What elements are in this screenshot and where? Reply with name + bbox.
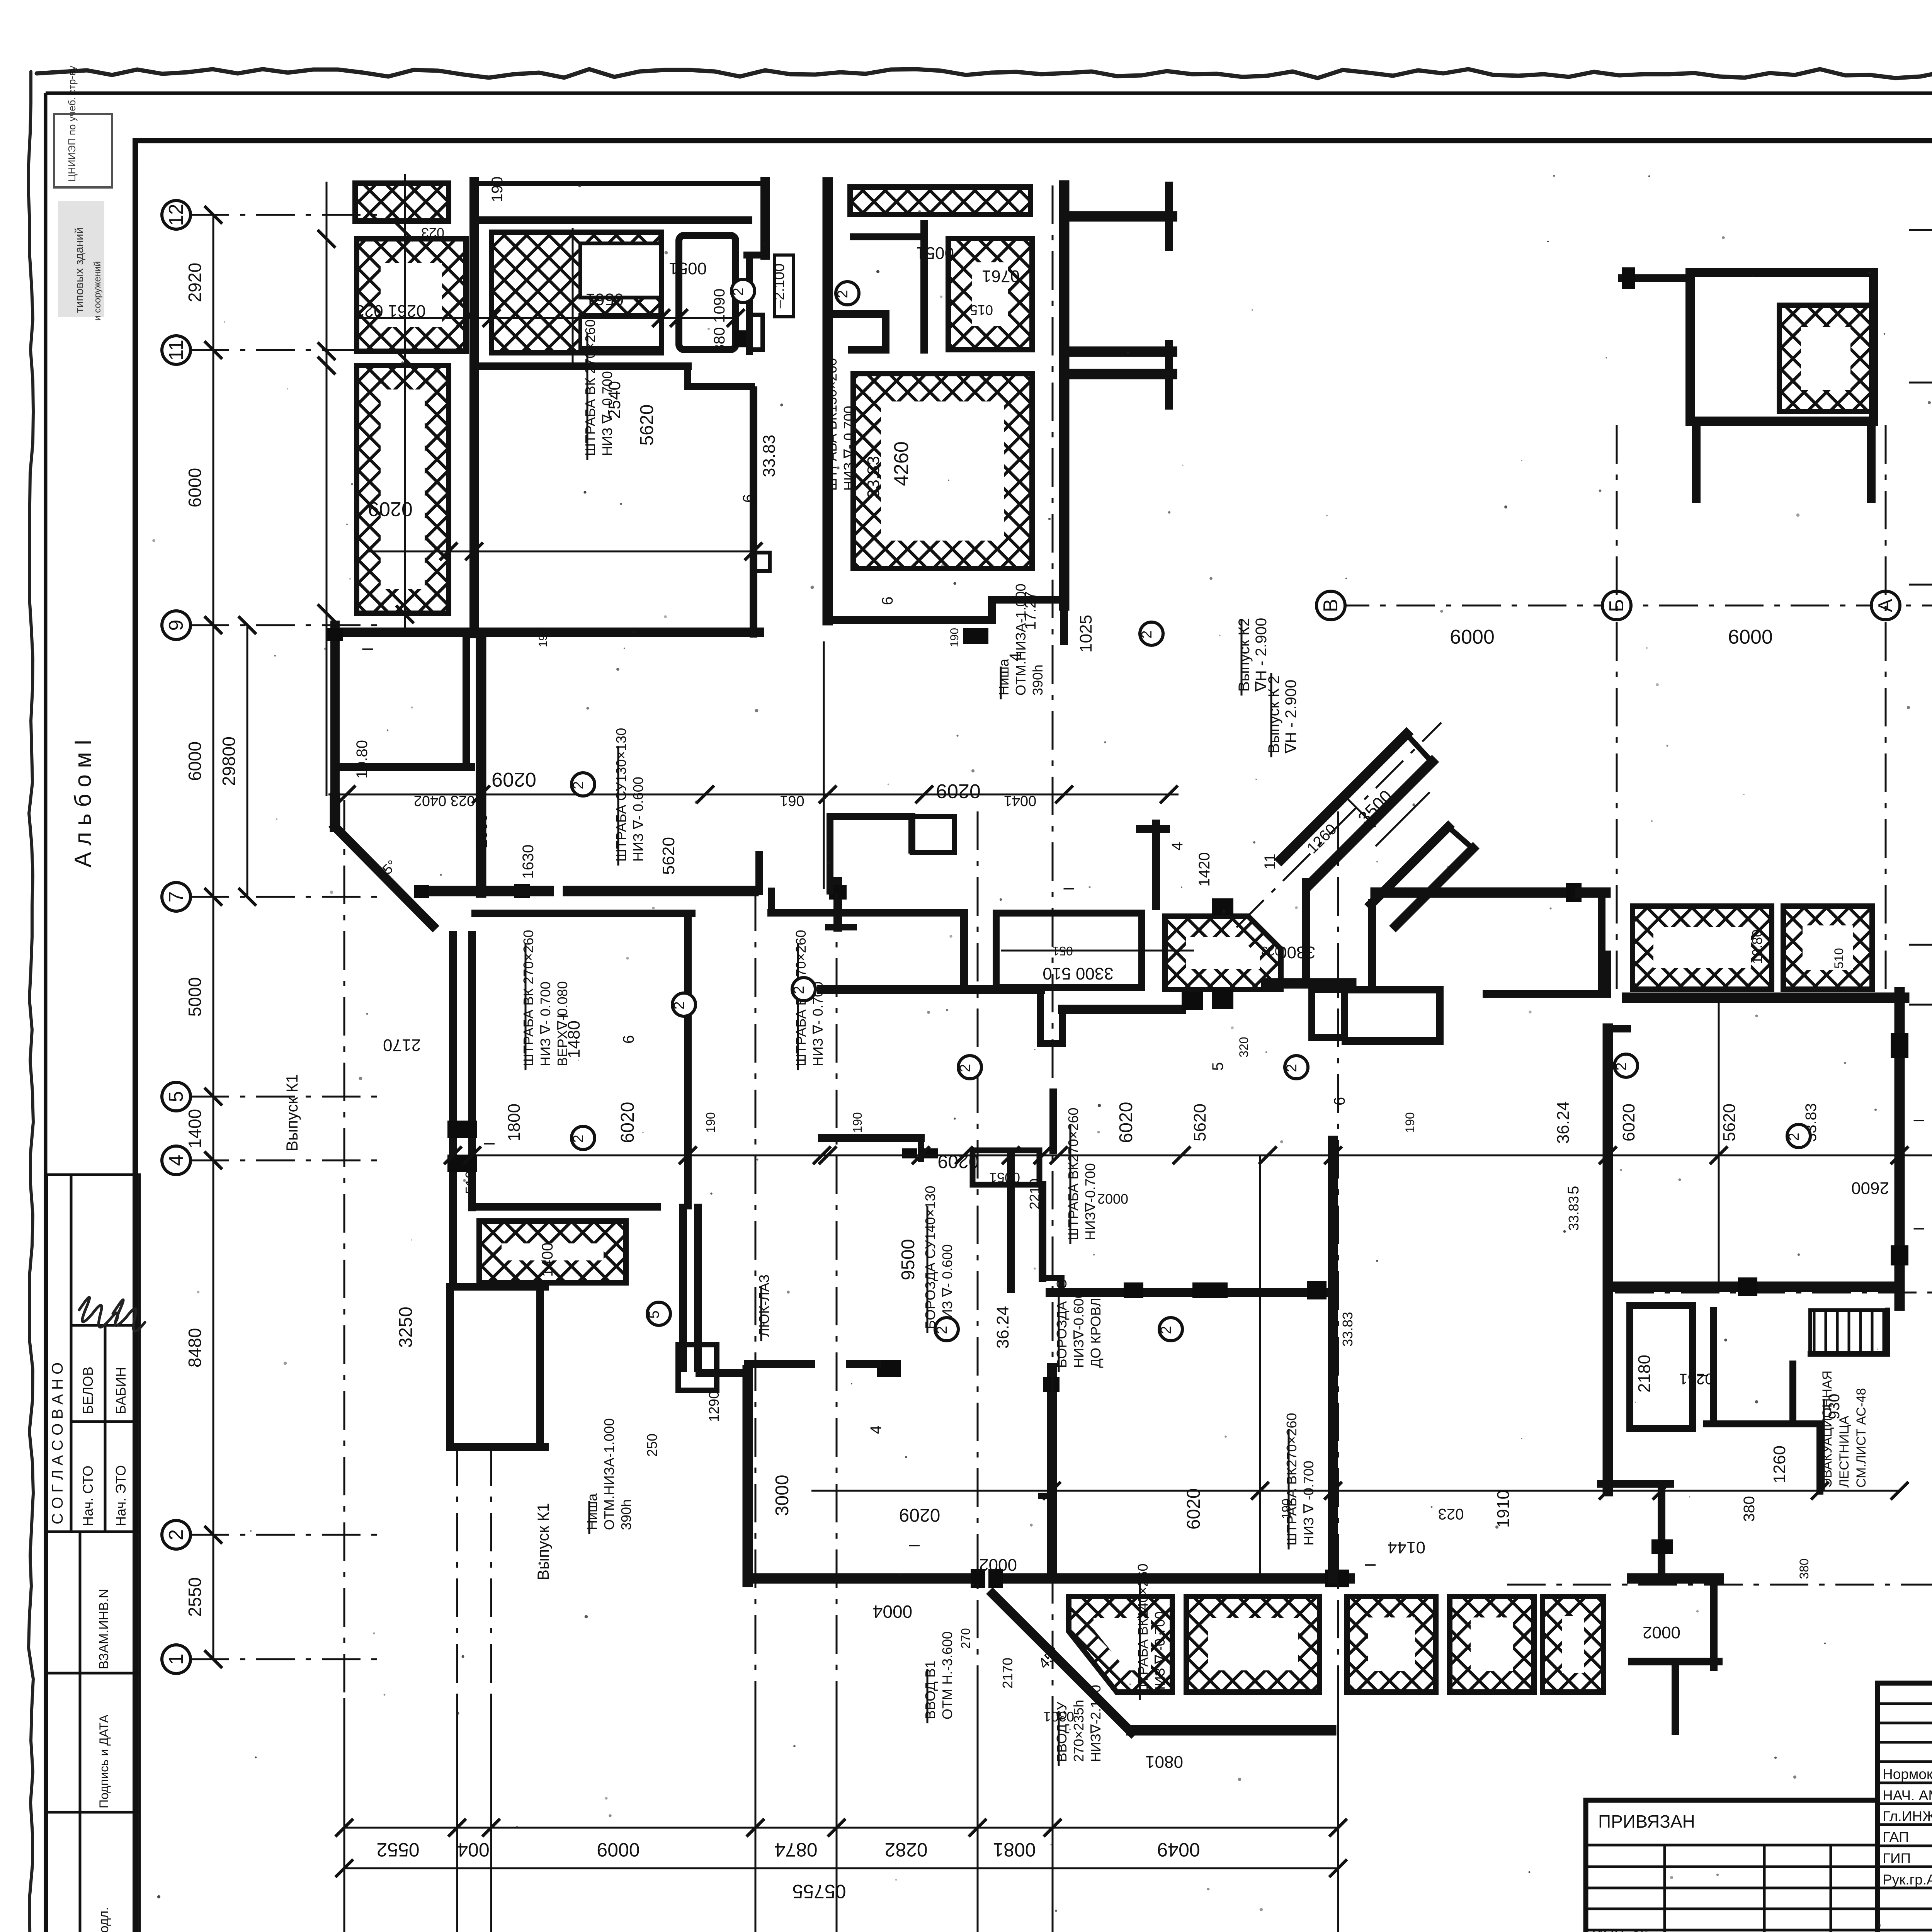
scan left wavy edge	[29, 71, 33, 1932]
svg-text:6: 6	[740, 494, 757, 503]
svg-text:2: 2	[1284, 1064, 1300, 1072]
svg-text:6020: 6020	[1619, 1104, 1638, 1141]
east wall of wing top	[760, 182, 770, 255]
svg-text:0209: 0209	[938, 1151, 979, 1172]
svg-text:ИНВ.N°подл.: ИНВ.N°подл.	[97, 1907, 111, 1932]
svg-text:5: 5	[646, 1310, 662, 1318]
svg-text:I: I	[906, 1543, 923, 1548]
wall stubs below block	[1692, 421, 1701, 498]
svg-text:023: 023	[1438, 1505, 1464, 1522]
svg-text:ВВОД СУ: ВВОД СУ	[1054, 1701, 1070, 1762]
svg-text:190: 190	[948, 628, 961, 647]
svg-text:Выпуск К2: Выпуск К2	[1236, 618, 1253, 692]
svg-text:390h: 390h	[1030, 665, 1046, 696]
stairs enclosure	[1810, 1351, 1888, 1357]
hatched box room 11-9/Л	[357, 366, 449, 613]
outer sheet border top	[46, 92, 1932, 95]
svg-text:ШТРАБА ВК270×260: ШТРАБА ВК270×260	[1065, 1107, 1081, 1240]
svg-text:6: 6	[1331, 1097, 1348, 1105]
notch on east wall	[753, 553, 770, 571]
hatched box right band 1	[1633, 906, 1772, 989]
svg-text:33.83: 33.83	[1566, 1196, 1582, 1231]
central cross wall y3345	[1050, 1288, 1327, 1297]
horizontal dimension chain y=2990	[444, 1146, 1932, 1164]
svg-text:2920: 2920	[185, 263, 205, 302]
wall	[1486, 990, 1607, 998]
axis circle 7 left	[162, 883, 190, 911]
svg-text:БЕЛОВ: БЕЛОВ	[80, 1367, 96, 1414]
step wall	[684, 366, 691, 386]
hatched box 1700 chamfered	[1165, 916, 1281, 990]
interior vertical continuation	[476, 638, 486, 893]
room 3300	[996, 913, 1142, 987]
svg-text:6: 6	[879, 597, 896, 605]
right axis dimension chain	[1507, 221, 1932, 1594]
svg-text:типовых зданий: типовых зданий	[73, 227, 86, 313]
wall below chain left	[822, 1134, 921, 1142]
small room at junction	[1312, 990, 1345, 1037]
svg-text:36.24: 36.24	[1554, 1101, 1573, 1144]
svg-text:I: I	[1694, 1373, 1711, 1378]
wall pieces near axis 5-4	[748, 1360, 811, 1368]
agreement table (СОГЛАСОВАНО)	[47, 1175, 145, 1532]
wall top of wing thin	[474, 181, 765, 186]
svg-text:и сооружений: и сооружений	[92, 261, 103, 321]
notch walls	[828, 310, 886, 318]
door marker	[447, 1155, 477, 1172]
svg-text:36.24: 36.24	[993, 1306, 1012, 1349]
svg-text:6020: 6020	[1116, 1102, 1136, 1143]
long wall y2561	[822, 985, 1041, 994]
svg-text:I: I	[1911, 1226, 1928, 1231]
svg-text:0561: 0561	[586, 290, 624, 309]
svg-text:Нормоконт.: Нормоконт.	[1883, 1766, 1932, 1782]
svg-text:СМ.ЛИСТ АС-48: СМ.ЛИСТ АС-48	[1854, 1388, 1869, 1488]
svg-text:НИЗ ∇- 0.700: НИЗ ∇- 0.700	[841, 406, 857, 491]
wall 2600	[1615, 1282, 1900, 1292]
svg-text:0049: 0049	[1157, 1839, 1200, 1861]
svg-text:6020: 6020	[617, 1102, 638, 1143]
svg-text:0004: 0004	[873, 1602, 912, 1622]
svg-text:ВЕРХ∇-0.080: ВЕРХ∇-0.080	[554, 981, 570, 1066]
svg-text:1800: 1800	[505, 1104, 524, 1141]
central partition 2	[1007, 1155, 1015, 1289]
room wall vertical	[684, 913, 692, 1206]
svg-text:НИЗ ∇- 0.700: НИЗ ∇- 0.700	[537, 981, 553, 1066]
svg-text:0002: 0002	[1097, 1191, 1128, 1207]
svg-text:1630: 1630	[520, 845, 537, 879]
svg-text:I: I	[1911, 1118, 1928, 1122]
svg-text:4: 4	[1169, 842, 1186, 850]
svg-text:4: 4	[165, 1155, 187, 1166]
svg-text:2550: 2550	[185, 1577, 205, 1617]
svg-text:1400: 1400	[185, 1109, 205, 1148]
svg-text:ШТРАБА ВК 270×260: ШТРАБА ВК 270×260	[582, 319, 598, 456]
svg-text:015: 015	[970, 302, 993, 318]
svg-text:5: 5	[1209, 1062, 1226, 1071]
svg-text:2: 2	[1158, 1326, 1174, 1334]
long wall to right block	[1376, 888, 1566, 898]
wall stub	[1060, 605, 1068, 641]
svg-text:5: 5	[165, 1091, 187, 1102]
axis circle Б top	[1602, 591, 1631, 620]
svg-text:0002: 0002	[979, 1555, 1017, 1574]
svg-text:0041: 0041	[1004, 793, 1037, 809]
svg-text:ДО КРОВЛИ: ДО КРОВЛИ	[1088, 1287, 1104, 1368]
corridor east wall	[468, 935, 476, 1207]
room 1300 small	[973, 1150, 1039, 1185]
section circle 5	[646, 1302, 670, 1325]
svg-text:НИЗ ∇- 0.700: НИЗ ∇- 0.700	[599, 371, 615, 456]
corridor continues	[449, 1207, 457, 1287]
svg-text:БОРОЗДА ЗО: БОРОЗДА ЗО	[1054, 1278, 1070, 1368]
svg-text:2180: 2180	[1635, 1355, 1654, 1393]
svg-text:0282: 0282	[884, 1839, 927, 1861]
svg-text:0009: 0009	[597, 1839, 639, 1861]
svg-text:I: I	[554, 1014, 571, 1018]
svg-text:ОТМ.НИЗА-1.000: ОТМ.НИЗА-1.000	[601, 1418, 617, 1530]
svg-text:7: 7	[165, 891, 187, 903]
left axis dimension chain	[190, 206, 386, 1668]
svg-text:023 0402: 023 0402	[414, 793, 475, 809]
svg-text:0009: 0009	[1450, 625, 1495, 648]
right block west wall	[1603, 1029, 1613, 1491]
svg-text:ГИП: ГИП	[1883, 1850, 1911, 1866]
svg-text:190: 190	[489, 177, 506, 202]
wall stub right of 1300	[748, 315, 763, 350]
wall west of big room	[469, 182, 479, 634]
svg-text:2600: 2600	[1851, 1179, 1889, 1197]
branch wall E top	[1064, 211, 1172, 222]
left margin small stamp (blurred)	[54, 66, 112, 321]
svg-text:5: 5	[1565, 1186, 1582, 1194]
svg-text:2: 2	[671, 1001, 687, 1009]
svg-text:ОТМ Н.-3.600: ОТМ Н.-3.600	[939, 1631, 955, 1719]
hatched box bottom 5	[1543, 1597, 1604, 1692]
svg-text:9: 9	[165, 620, 187, 631]
svg-text:05755: 05755	[792, 1881, 846, 1902]
label box -2.100	[771, 255, 793, 317]
svg-text:Гл.ИНЖ.М: Гл.ИНЖ.М	[1883, 1808, 1932, 1824]
svg-text:0081: 0081	[993, 1839, 1036, 1861]
svg-text:4: 4	[867, 1425, 884, 1434]
hatched box right band 2	[1783, 906, 1872, 989]
hatched box 1970	[948, 238, 1032, 350]
svg-text:061: 061	[780, 793, 804, 809]
svg-text:1420: 1420	[1196, 852, 1213, 887]
section reference circles	[570, 279, 1810, 1341]
wall stub left	[1622, 274, 1690, 282]
svg-text:2: 2	[570, 1134, 587, 1143]
central partition verticals	[1049, 1092, 1057, 1150]
svg-text:ШТРАБА ВК130×260: ШТРАБА ВК130×260	[824, 358, 840, 491]
svg-text:1400: 1400	[539, 1243, 556, 1277]
svg-text:2170: 2170	[383, 1036, 421, 1054]
right block south walls	[1601, 1480, 1670, 1488]
wing dim chains	[318, 182, 762, 796]
west wall column	[1152, 823, 1160, 906]
svg-text:Ниша: Ниша	[584, 1493, 600, 1530]
hatched box bottom 1 (trapezoid)	[1069, 1597, 1172, 1692]
svg-text:ШТРАБА ВК270×260: ШТРАБА ВК270×260	[1284, 1413, 1299, 1546]
shaft walls	[679, 1207, 687, 1368]
svg-text:НАЧ. АМ-1: НАЧ. АМ-1	[1883, 1787, 1932, 1803]
axis circle 11 left	[162, 336, 190, 364]
svg-text:5620: 5620	[1720, 1104, 1739, 1141]
svg-text:Нач. СТО: Нач. СТО	[80, 1466, 96, 1526]
branch wall E middle	[1064, 347, 1172, 357]
svg-text:БОРОЗДА СУ140×130: БОРОЗДА СУ140×130	[922, 1186, 938, 1329]
room wall	[475, 910, 692, 917]
svg-text:НИЗ ∇ -0.700: НИЗ ∇ -0.700	[1301, 1461, 1316, 1546]
right block inner line	[1718, 998, 1720, 1287]
svg-text:0009: 0009	[1728, 625, 1773, 648]
svg-text:9500: 9500	[898, 1239, 918, 1281]
bottom walls of wing	[992, 596, 1063, 604]
right block east wall	[1895, 992, 1905, 1306]
bottom dimension labels	[376, 1839, 1200, 1902]
svg-text:33.83: 33.83	[760, 435, 779, 477]
svg-text:12: 12	[165, 204, 187, 226]
svg-text:I: I	[1061, 886, 1078, 891]
svg-text:1260: 1260	[1770, 1446, 1789, 1483]
svg-text:2: 2	[165, 1529, 187, 1541]
bottom outer wall east of diagonal	[1131, 1725, 1331, 1736]
svg-text:0209: 0209	[368, 498, 413, 520]
svg-text:6000: 6000	[185, 742, 205, 781]
wall top of big room	[474, 362, 688, 370]
svg-text:270: 270	[959, 1628, 973, 1648]
svg-text:4260: 4260	[890, 441, 913, 486]
bottom center step wall	[1041, 1493, 1052, 1499]
svg-text:НИЗ ∇- 0.600: НИЗ ∇- 0.600	[630, 777, 646, 862]
svg-text:510: 510	[463, 1171, 478, 1194]
axis circle 9 left	[162, 611, 190, 639]
svg-text:Подпись и ДАТА: Подпись и ДАТА	[97, 1714, 111, 1808]
svg-text:051: 051	[1052, 944, 1073, 958]
svg-text:0002: 0002	[1643, 1623, 1680, 1642]
dimension labels in plan	[354, 177, 1889, 1771]
svg-text:1910: 1910	[1494, 1490, 1513, 1528]
bottom dim chain y=3858	[811, 1490, 1901, 1492]
svg-text:Ниша: Ниша	[996, 658, 1012, 696]
svg-text:29800: 29800	[219, 736, 239, 786]
svg-text:33.83: 33.83	[864, 456, 883, 498]
svg-text:ЛЮК-ЛАЗ: ЛЮК-ЛАЗ	[756, 1274, 772, 1337]
svg-text:0144: 0144	[1388, 1538, 1425, 1557]
svg-text:–2.100: –2.100	[771, 264, 787, 308]
niche room walls	[827, 816, 833, 891]
wall north of rooms	[474, 216, 748, 224]
small shaft box	[678, 1345, 717, 1390]
svg-text:2: 2	[957, 1064, 973, 1072]
svg-text:0251: 0251	[1679, 1370, 1714, 1387]
svg-text:0874: 0874	[774, 1839, 817, 1861]
hatched box bottom 4	[1450, 1597, 1534, 1692]
svg-text:1: 1	[165, 1654, 187, 1665]
svg-text:НИЗ∇-0.600: НИЗ∇-0.600	[1071, 1291, 1087, 1368]
svg-text:ВВОД В1: ВВОД В1	[922, 1661, 938, 1719]
svg-text:1025: 1025	[1077, 615, 1095, 653]
svg-text:0051: 0051	[989, 1170, 1020, 1185]
svg-text:0261 023: 0261 023	[355, 301, 426, 320]
svg-text:510: 510	[1832, 948, 1846, 968]
stairs	[1810, 1310, 1888, 1354]
east wall of wing	[1059, 185, 1070, 605]
small room bottom-left	[450, 1283, 545, 1291]
top-right block outline	[1690, 272, 1874, 421]
hatched box top-right	[1779, 305, 1872, 412]
svg-text:190: 190	[704, 1112, 718, 1133]
svg-text:Выпуск К 2: Выпуск К 2	[1265, 675, 1282, 753]
hatched box bottom 2	[1186, 1597, 1320, 1692]
svg-text:0801: 0801	[1145, 1752, 1183, 1771]
small rooms	[1630, 1306, 1692, 1429]
wall	[699, 1369, 748, 1377]
corridor west wall	[449, 935, 457, 1207]
svg-text:НИЗ∇-0.700: НИЗ∇-0.700	[1082, 1163, 1098, 1240]
svg-text:0209: 0209	[899, 1505, 940, 1525]
room 10.80 walls	[335, 763, 471, 771]
hatched box bottom 3	[1347, 1597, 1436, 1692]
stub above north wall	[1604, 954, 1611, 992]
white slot 1950 in hatched block	[580, 243, 661, 298]
svg-text:190: 190	[850, 1112, 864, 1133]
dim line x=2132	[823, 641, 825, 889]
east wall of big room	[750, 390, 757, 634]
svg-text:С О Г Л А С О В А Н О: С О Г Л А С О В А Н О	[49, 1362, 66, 1524]
svg-text:190: 190	[537, 628, 549, 647]
top-middle wing west wall	[823, 182, 833, 620]
inventory table (ВЗАМ.ИНВ etc)	[47, 1532, 139, 1932]
svg-text:ШТРАБА СУ130×130: ШТРАБА СУ130×130	[613, 728, 629, 862]
svg-text:0051: 0051	[916, 243, 954, 262]
small room 1500 walls	[853, 233, 924, 240]
wall	[472, 1203, 657, 1211]
svg-text:2: 2	[934, 1326, 950, 1334]
wall	[1266, 978, 1351, 989]
svg-text:11: 11	[1262, 854, 1279, 870]
hatched box 4260	[853, 374, 1032, 568]
svg-text:В: В	[1320, 599, 1342, 612]
section labels 6/4/5/11	[359, 494, 1928, 1567]
svg-text:380: 380	[1741, 1496, 1758, 1522]
svg-text:Выпуск К1: Выпуск К1	[534, 1503, 552, 1580]
svg-text:5620: 5620	[659, 837, 678, 875]
svg-text:4: 4	[1007, 653, 1024, 661]
svg-text:3000: 3000	[772, 1475, 793, 1516]
white slot 2 in hatched block	[580, 315, 661, 348]
svg-text:I: I	[481, 1141, 498, 1146]
diagonal dim tick lines	[1345, 796, 1376, 827]
svg-text:380: 380	[1797, 1558, 1811, 1579]
svg-text:2: 2	[570, 781, 587, 789]
svg-text:ПРИВЯЗАН: ПРИВЯЗАН	[1598, 1811, 1695, 1832]
jog wall	[747, 252, 765, 259]
svg-text:190: 190	[1403, 1112, 1417, 1133]
door marker	[447, 1121, 477, 1138]
axis verticals dash-dot	[344, 185, 1886, 1816]
svg-text:10.80: 10.80	[1749, 929, 1765, 964]
svg-text:ОТМ.НИЗА-1.000: ОТМ.НИЗА-1.000	[1013, 583, 1029, 696]
svg-text:10.80: 10.80	[354, 740, 371, 779]
axis circle А top	[1871, 591, 1900, 620]
svg-text:5000: 5000	[185, 977, 205, 1017]
svg-text:2000: 2000	[473, 814, 490, 848]
axis circle 1 left	[162, 1645, 190, 1673]
svg-text:I: I	[359, 647, 376, 651]
svg-text:Нач. ЭТО: Нач. ЭТО	[113, 1465, 129, 1526]
svg-text:ШТРАБА ВК140×260: ШТРАБА ВК140×260	[1135, 1563, 1151, 1696]
junction walls	[1302, 882, 1310, 983]
room 1300	[679, 235, 736, 350]
svg-text:2: 2	[835, 290, 851, 298]
diagonal corridor band 1	[1281, 734, 1406, 859]
svg-text:11: 11	[165, 340, 187, 361]
middle band: east wall stub axis E	[833, 881, 842, 927]
hatched north band Л	[355, 183, 449, 221]
svg-text:33.83: 33.83	[1340, 1312, 1355, 1347]
svg-text:∇Н - 2.900: ∇Н - 2.900	[1282, 680, 1299, 754]
svg-text:270×235h: 270×235h	[1071, 1700, 1087, 1762]
svg-text:023: 023	[1261, 944, 1281, 958]
svg-text:НИЗ ∇ -0,700: НИЗ ∇ -0,700	[1152, 1611, 1168, 1696]
svg-text:0209: 0209	[936, 780, 981, 802]
title block	[1586, 1683, 1932, 1932]
middle room A walls	[768, 891, 775, 913]
svg-text:2: 2	[730, 287, 747, 296]
svg-text:БАБИН: БАБИН	[113, 1367, 129, 1414]
svg-text:2: 2	[1786, 1133, 1802, 1141]
axis circle 4 left	[162, 1146, 190, 1175]
svg-text:6020: 6020	[1184, 1488, 1204, 1530]
svg-text:2170: 2170	[1000, 1658, 1015, 1689]
wall stub above axis7	[755, 855, 763, 891]
svg-text:8480: 8480	[185, 1328, 205, 1367]
outer sheet border left	[44, 93, 48, 1932]
svg-text:0051: 0051	[669, 259, 707, 278]
leader notes	[582, 319, 615, 460]
bottom wall of wing	[340, 628, 760, 637]
svg-text:ЛЕСТНИЦА: ЛЕСТНИЦА	[1837, 1416, 1852, 1488]
svg-text:380 1090: 380 1090	[711, 289, 728, 353]
svg-text:0761: 0761	[982, 267, 1020, 286]
svg-text:5620: 5620	[1190, 1104, 1209, 1141]
diagonal corridor band 2	[1371, 827, 1448, 904]
right block north wall	[1627, 993, 1904, 1003]
svg-text:А л ь б о м I: А л ь б о м I	[70, 739, 96, 867]
hatched box 1400	[479, 1221, 626, 1283]
svg-text:2210: 2210	[1027, 1179, 1043, 1209]
grand bottom wall	[748, 1573, 971, 1584]
diagonal bottom-left outer wall	[993, 1594, 1131, 1732]
axis circle 2 left	[162, 1520, 190, 1549]
left axis dimension labels	[185, 263, 239, 1617]
vertical dimension chain x=1048 top-left	[396, 174, 414, 634]
hatched block 2540x1950	[492, 232, 661, 353]
svg-text:I: I	[1362, 1563, 1379, 1567]
svg-text:5620: 5620	[637, 405, 657, 446]
svg-text:3300: 3300	[1277, 943, 1315, 962]
ticks on y=3858 chain	[1043, 1482, 1908, 1500]
wall west below	[330, 625, 340, 798]
svg-text:ЦНИИЭП по учеб. стр-ву: ЦНИИЭП по учеб. стр-ву	[66, 66, 78, 182]
top letter axis line	[1331, 597, 1932, 648]
svg-text:250: 250	[644, 1434, 660, 1457]
svg-text:3250: 3250	[396, 1307, 416, 1348]
bottom axis dimension chain	[335, 1698, 1347, 1932]
svg-text:ГАП: ГАП	[1883, 1829, 1909, 1845]
